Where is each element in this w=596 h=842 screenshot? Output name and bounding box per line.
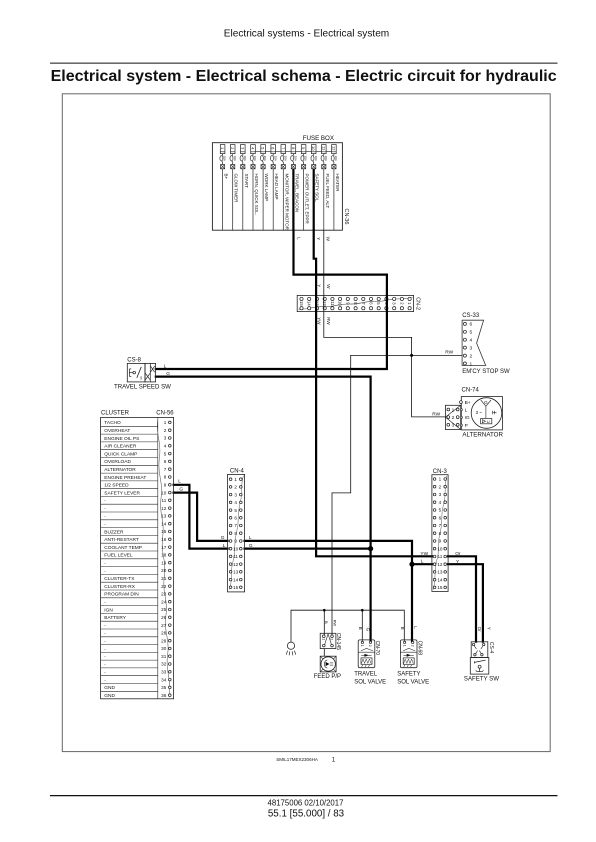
svg-text:SOL VALVE: SOL VALVE <box>397 679 429 685</box>
svg-text:ENGINE PREHEAT: ENGINE PREHEAT <box>104 475 146 481</box>
svg-text:HEATER: HEATER <box>335 174 340 193</box>
svg-text:OVERHEAT: OVERHEAT <box>104 428 130 434</box>
wire Or : CN-3 pin 11 to CS-4 <box>448 556 476 641</box>
svg-text:ALTERNATOR: ALTERNATOR <box>462 431 503 438</box>
wire Y : CN-3 pin 12 to CS-4 <box>448 564 483 641</box>
svg-text:22: 22 <box>161 584 167 589</box>
wire label RW to alternator <box>432 411 440 417</box>
svg-text:5: 5 <box>234 508 237 513</box>
svg-text:RW: RW <box>332 620 337 627</box>
svg-text:18: 18 <box>161 553 167 558</box>
svg-text:17: 17 <box>161 545 167 550</box>
svg-text:QUICK CLAMP: QUICK CLAMP <box>104 451 137 457</box>
schematic frame <box>62 94 550 752</box>
svg-text:G: G <box>166 371 170 377</box>
svg-text:ANTI-RESTART: ANTI-RESTART <box>104 537 139 543</box>
svg-text:L: L <box>249 535 252 541</box>
wire G horizontal from CN-4 row 10 <box>245 547 371 549</box>
svg-text:28: 28 <box>161 631 167 636</box>
svg-text:FUEL LEVEL: FUEL LEVEL <box>104 553 133 559</box>
svg-text:24: 24 <box>161 599 167 604</box>
svg-text:21: 21 <box>161 576 167 581</box>
svg-text:7: 7 <box>234 523 237 528</box>
svg-text:8: 8 <box>234 531 237 536</box>
svg-text:3: 3 <box>439 492 442 497</box>
svg-text:RW: RW <box>432 411 440 417</box>
svg-text:PROGRAM D/N: PROGRAM D/N <box>104 592 139 598</box>
svg-text:CS-33: CS-33 <box>462 313 480 319</box>
feed pump FEED P/P <box>314 656 341 680</box>
svg-text:B: B <box>358 627 363 630</box>
svg-text:B+: B+ <box>465 400 471 406</box>
svg-text:32: 32 <box>161 662 167 667</box>
svg-text:1: 1 <box>234 477 237 482</box>
svg-text:11: 11 <box>233 554 238 559</box>
svg-text:CN-4: CN-4 <box>230 469 245 475</box>
svg-text:U: U <box>487 419 490 424</box>
svg-text:RW: RW <box>326 317 331 325</box>
connector CN-3 <box>432 469 448 592</box>
svg-text:FUEL FEED, ALT: FUEL FEED, ALT <box>325 174 330 209</box>
solenoid valve CN-68 safety <box>397 640 429 685</box>
svg-text:1: 1 <box>402 645 406 647</box>
svg-text:P: P <box>465 423 468 429</box>
svg-text:1: 1 <box>439 477 442 482</box>
ground symbol <box>286 642 296 655</box>
svg-text:30A: 30A <box>334 156 338 161</box>
figure caption <box>276 757 336 763</box>
svg-text:Y: Y <box>316 237 321 240</box>
svg-text:MONITOR, WIPER MOTOR: MONITOR, WIPER MOTOR <box>284 174 289 231</box>
wire labels below CN-2 <box>317 317 331 325</box>
fuse box FUSE BOX <box>212 135 342 230</box>
svg-text:L: L <box>421 559 424 565</box>
svg-text:Electrical system - Electrical: Electrical system - Electrical schema - … <box>51 68 557 85</box>
svg-text:16: 16 <box>161 537 167 542</box>
svg-text:SAFETY LEVER: SAFETY LEVER <box>104 490 140 496</box>
svg-text:L: L <box>164 364 167 370</box>
svg-text:4: 4 <box>439 500 442 505</box>
svg-text:6: 6 <box>439 515 442 520</box>
svg-text:BATTERY: BATTERY <box>104 615 126 621</box>
svg-text:7: 7 <box>164 467 167 472</box>
svg-text:G: G <box>366 628 371 632</box>
svg-text:1: 1 <box>452 407 455 413</box>
svg-text:Or: Or <box>455 551 461 557</box>
connector CN-2 <box>297 295 413 311</box>
svg-text:13: 13 <box>233 570 239 575</box>
svg-text:Electrical systems - Electrica: Electrical systems - Electrical system <box>224 29 389 40</box>
svg-text:20A: 20A <box>263 156 267 161</box>
wire labels at CN-4 right <box>249 535 253 549</box>
svg-text:12: 12 <box>322 301 327 306</box>
junction dot G <box>368 546 373 551</box>
page header text <box>224 29 389 40</box>
svg-text:36: 36 <box>161 693 167 698</box>
svg-text:10: 10 <box>161 490 167 495</box>
cluster wire L : pin 9 to CN-4 row 10 <box>174 485 228 549</box>
svg-text:10A: 10A <box>324 156 328 161</box>
svg-text:6: 6 <box>164 459 167 464</box>
svg-text:2: 2 <box>439 484 442 489</box>
header rule <box>50 62 558 64</box>
wire RW branch to CN-145 <box>332 355 351 635</box>
svg-text:2: 2 <box>452 415 455 421</box>
svg-text:33: 33 <box>161 670 167 675</box>
svg-text:RW: RW <box>445 350 453 356</box>
svg-text:10A: 10A <box>233 156 237 161</box>
wire labels at CS-8 <box>164 364 171 378</box>
svg-text:10: 10 <box>233 546 239 551</box>
junction dot L <box>409 562 414 567</box>
svg-text:YW: YW <box>420 551 428 557</box>
connector CN-74 / alternator <box>445 387 503 438</box>
svg-text:10: 10 <box>437 546 443 551</box>
svg-text:31: 31 <box>161 654 167 659</box>
svg-text:SMIL17MEX2306HA: SMIL17MEX2306HA <box>276 757 318 762</box>
svg-text:SOL VALVE: SOL VALVE <box>354 679 386 685</box>
junction dot RW <box>410 354 413 357</box>
svg-text:12: 12 <box>331 146 336 151</box>
svg-text:CLUSTER: CLUSTER <box>101 411 130 417</box>
svg-text:19: 19 <box>161 560 167 565</box>
svg-text:SAFETY: SAFETY <box>397 671 420 677</box>
svg-text:SAFETY SW: SAFETY SW <box>464 675 499 682</box>
svg-text:13: 13 <box>437 570 443 575</box>
svg-text:34: 34 <box>161 677 167 682</box>
wire labels at CN-3 left <box>420 551 428 565</box>
svg-text:OVERLOAD: OVERLOAD <box>104 459 131 465</box>
wire G : travel speed switch down to CN-70 and CN-4 row 10 <box>156 377 371 641</box>
section title <box>51 68 557 85</box>
svg-text:13: 13 <box>161 514 167 519</box>
svg-text:SAFETY SOL.: SAFETY SOL. <box>315 174 320 203</box>
svg-text:23: 23 <box>161 592 167 597</box>
svg-text:G: G <box>221 535 225 541</box>
svg-text:20A: 20A <box>273 156 277 161</box>
svg-text:14: 14 <box>307 301 312 306</box>
wire label RW to CS-33 <box>445 350 453 356</box>
wire labels at solenoid valves <box>358 627 371 632</box>
svg-text:12: 12 <box>437 562 443 567</box>
svg-text:12: 12 <box>161 506 167 511</box>
svg-text:10A: 10A <box>253 156 257 161</box>
connector label CN-145 <box>335 633 341 650</box>
svg-text:2: 2 <box>164 428 167 433</box>
svg-text:14: 14 <box>161 521 167 526</box>
svg-text:POWER OUTLET, EPPR: POWER OUTLET, EPPR <box>305 174 310 225</box>
svg-text:15: 15 <box>299 301 304 306</box>
footer page number <box>268 808 345 819</box>
connector CN-4 <box>228 469 245 592</box>
svg-text:Y: Y <box>316 284 321 287</box>
svg-text:g: g <box>140 376 142 380</box>
svg-text:B: B <box>400 627 405 630</box>
svg-text:4: 4 <box>164 444 167 449</box>
wire L : fuse 8 to CN-2 pin 4 to travel speed switch <box>156 230 387 369</box>
junction dots ground line <box>323 609 364 612</box>
svg-text:TRAVEL: TRAVEL <box>354 671 378 677</box>
connector CN-145 <box>320 633 336 648</box>
svg-text:B: B <box>324 621 329 624</box>
svg-text:TRAVEL SPEED SW: TRAVEL SPEED SW <box>114 384 171 391</box>
wire RW to CS-33 pin 2 <box>351 354 462 356</box>
wire labels below fuse box <box>297 237 331 242</box>
svg-text:27: 27 <box>161 623 167 628</box>
svg-text:GLOW TIMER: GLOW TIMER <box>234 174 239 204</box>
svg-text:GND: GND <box>104 685 115 691</box>
svg-text:2: 2 <box>470 353 473 359</box>
svg-text:3: 3 <box>234 492 237 497</box>
wire CN-145 to feed pump <box>323 649 325 657</box>
connector label CN-2 <box>414 297 420 310</box>
svg-text:L: L <box>178 478 181 484</box>
svg-text:ENGINE OIL PS: ENGINE OIL PS <box>104 436 139 442</box>
svg-text:IG: IG <box>465 415 470 421</box>
svg-text:CN-145: CN-145 <box>335 633 341 650</box>
svg-text:7: 7 <box>439 523 442 528</box>
wire Y/YW : fuse 10 through CN-2 pin 13 to CN-3 pin 11 <box>314 230 432 556</box>
svg-text:2: 2 <box>410 645 414 647</box>
svg-text:CS-4: CS-4 <box>488 642 494 654</box>
svg-text:START: START <box>244 174 249 189</box>
svg-text:CN-70: CN-70 <box>374 641 380 656</box>
svg-text:L: L <box>465 408 468 414</box>
svg-text:Y: Y <box>487 627 492 630</box>
svg-text:CN-74: CN-74 <box>462 387 480 393</box>
svg-text:FUSE BOX: FUSE BOX <box>303 135 334 142</box>
svg-text:B+: B+ <box>224 174 229 180</box>
svg-text:20A: 20A <box>294 156 298 161</box>
svg-text:4: 4 <box>470 338 473 344</box>
svg-text:TRAVEL, BEACON: TRAVEL, BEACON <box>294 174 299 213</box>
svg-text:CN-56: CN-56 <box>156 411 174 417</box>
wire labels at cluster pins 9/10 <box>178 478 183 492</box>
svg-text:8: 8 <box>164 475 167 480</box>
svg-text:FEED P/P: FEED P/P <box>314 674 341 680</box>
svg-text:35: 35 <box>161 685 167 690</box>
connector CS-33 / emergency stop switch <box>462 313 510 375</box>
svg-text:CN-36: CN-36 <box>343 209 349 225</box>
svg-text:48175006 02/10/2017: 48175006 02/10/2017 <box>268 798 344 807</box>
svg-text:IGN: IGN <box>104 607 113 613</box>
svg-text:~: ~ <box>479 410 482 415</box>
wire W/RW : fuse 11 through CN-2 pin 12, to CS-33 area and alternator <box>324 230 445 417</box>
svg-text:11: 11 <box>330 301 335 306</box>
switch CS-8 / travel speed switch <box>114 357 171 390</box>
svg-text:AIR CLEANER: AIR CLEANER <box>104 444 137 450</box>
svg-text:1: 1 <box>321 638 325 640</box>
svg-text:Or: Or <box>477 627 482 633</box>
footer document number <box>268 798 344 807</box>
svg-text:25: 25 <box>161 607 167 612</box>
svg-text:30A: 30A <box>223 156 227 161</box>
svg-text:2: 2 <box>234 485 237 490</box>
svg-text:10A: 10A <box>314 156 318 161</box>
svg-text:CS-8: CS-8 <box>127 357 141 363</box>
svg-text:9: 9 <box>234 539 237 544</box>
svg-text:9: 9 <box>439 539 442 544</box>
svg-text:4: 4 <box>234 500 237 505</box>
svg-text:HEAD LAMP: HEAD LAMP <box>274 174 279 200</box>
connector label CN-36 <box>343 209 349 225</box>
wire labels at CN-145 <box>324 620 337 627</box>
svg-text:WORK LAMP: WORK LAMP <box>264 174 269 202</box>
svg-text:COOLANT TEMP: COOLANT TEMP <box>104 545 142 551</box>
svg-text:EM'CY STOP SW: EM'CY STOP SW <box>462 369 510 375</box>
svg-text:9: 9 <box>164 483 167 488</box>
svg-text:CLUSTER-TX: CLUSTER-TX <box>104 576 135 582</box>
wire labels at CN-4 left <box>221 535 226 549</box>
svg-text:15: 15 <box>233 585 239 590</box>
wire labels at CS-4 <box>477 627 491 633</box>
svg-text:6: 6 <box>470 322 473 328</box>
svg-text:ALTERNATOR: ALTERNATOR <box>104 467 136 473</box>
svg-text:30A: 30A <box>243 156 247 161</box>
svg-text:TACHO: TACHO <box>104 420 121 426</box>
wire L : CN-4 row 9 to CN-3 pin 12 and CN-68 <box>245 541 412 641</box>
solenoid valve CN-70 travel <box>354 640 386 685</box>
svg-text:6: 6 <box>234 516 237 521</box>
footer rule <box>50 795 558 797</box>
svg-text:20A: 20A <box>283 156 287 161</box>
svg-text:L: L <box>223 543 226 549</box>
svg-text:55.1 [55.000] / 83: 55.1 [55.000] / 83 <box>268 808 345 819</box>
svg-text:CLUSTER-RX: CLUSTER-RX <box>104 584 135 590</box>
svg-text:2: 2 <box>368 645 372 647</box>
svg-text:2: 2 <box>330 638 334 640</box>
ground wire B net <box>291 610 404 642</box>
svg-text:CN-3: CN-3 <box>433 469 448 475</box>
svg-text:5: 5 <box>470 330 473 336</box>
svg-text:11: 11 <box>162 498 167 503</box>
svg-text:CN-2: CN-2 <box>414 297 420 310</box>
svg-text:15: 15 <box>437 585 443 590</box>
svg-text:1/2 SPEED: 1/2 SPEED <box>104 483 129 489</box>
wire labels above CN-2 <box>316 284 331 289</box>
svg-text:3: 3 <box>164 436 167 441</box>
cluster wire G : pin 10 to CN-4 row 9 <box>174 493 228 541</box>
svg-text:20: 20 <box>161 568 167 573</box>
svg-text:W: W <box>326 284 331 289</box>
svg-text:3: 3 <box>452 423 455 429</box>
svg-text:G: G <box>179 486 183 492</box>
wire labels at CN-3 right <box>455 551 461 565</box>
svg-text:W: W <box>326 237 331 242</box>
svg-text:20A: 20A <box>304 156 308 161</box>
svg-text:14: 14 <box>437 577 443 582</box>
svg-text:HORN, QUICK SOL.: HORN, QUICK SOL. <box>254 174 259 216</box>
svg-text:3: 3 <box>470 345 473 351</box>
connector label CN-70 <box>374 641 380 656</box>
svg-text:10: 10 <box>311 146 316 151</box>
svg-text:30: 30 <box>161 646 167 651</box>
switch CS-4 / safety switch <box>464 642 499 683</box>
connector label CN-68 <box>416 641 422 656</box>
svg-text:1: 1 <box>470 361 473 367</box>
svg-text:14: 14 <box>233 577 239 582</box>
svg-text:11: 11 <box>438 554 443 559</box>
svg-text:8: 8 <box>439 531 442 536</box>
svg-text:G: G <box>249 543 253 549</box>
svg-text:29: 29 <box>161 638 167 643</box>
svg-text:GND: GND <box>104 693 115 699</box>
svg-text:YW: YW <box>317 317 322 325</box>
svg-text:26: 26 <box>161 615 167 620</box>
connector label CS-4 <box>488 642 494 654</box>
svg-text:CN-68: CN-68 <box>416 641 422 656</box>
svg-text:5: 5 <box>439 508 442 513</box>
svg-text:12: 12 <box>233 562 239 567</box>
svg-text:5: 5 <box>164 451 167 456</box>
svg-text:1: 1 <box>164 420 167 425</box>
svg-text:10: 10 <box>338 301 343 306</box>
svg-text:15: 15 <box>161 529 167 534</box>
cluster connector CN-56 <box>101 411 175 699</box>
svg-text:BUZZER: BUZZER <box>104 529 124 535</box>
svg-text:1: 1 <box>360 645 364 647</box>
